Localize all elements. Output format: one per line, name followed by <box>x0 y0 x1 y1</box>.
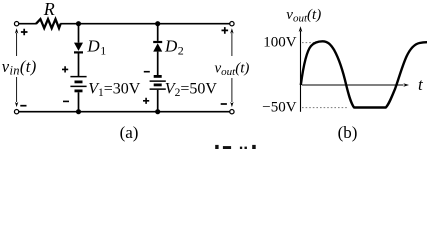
svg-text:V1=30V: V1=30V <box>88 80 141 99</box>
svg-text:D: D <box>164 37 178 56</box>
svg-text:100V: 100V <box>263 35 297 51</box>
svg-text:D: D <box>86 37 100 56</box>
svg-text:1: 1 <box>100 44 106 58</box>
svg-text:V2=50V: V2=50V <box>165 80 218 99</box>
svg-text:(b): (b) <box>338 123 358 142</box>
svg-text:(a): (a) <box>120 123 139 142</box>
svg-text:vin(t): vin(t) <box>2 57 37 78</box>
svg-text:2: 2 <box>178 44 184 58</box>
svg-text:R: R <box>43 0 55 19</box>
svg-text:−50V: −50V <box>262 99 296 115</box>
